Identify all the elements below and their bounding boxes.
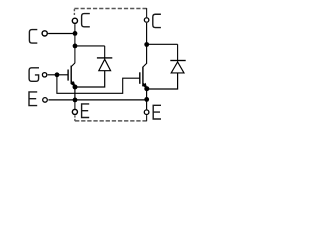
IGBT Q2 collector lead	[143, 63, 147, 67]
wire collector rail to D1	[75, 45, 105, 47]
label C (top right terminal)	[153, 14, 161, 27]
node dot collector aux junction	[73, 31, 78, 36]
IGBT Q1 main bar	[70, 66, 72, 84]
wire E rail	[48, 99, 146, 101]
module outline top-left dashed stub	[73, 9, 75, 15]
node dot Q2 emitter	[144, 86, 149, 91]
wire C aux to node	[48, 33, 75, 35]
label C (left aux terminal)	[29, 30, 37, 43]
wire C1 circle down to Q1	[74, 24, 76, 63]
node dot E rail left junction	[73, 98, 78, 103]
node dot E rail right junction	[144, 97, 149, 102]
label C (top left terminal)	[82, 14, 90, 27]
IGBT Q2 gate bar	[139, 72, 141, 84]
wire collector rail 2 to D2	[147, 43, 178, 45]
diode D2 anode wire	[147, 73, 178, 89]
node dot Q2 collector junction	[144, 42, 149, 47]
wire G aux to gate node	[48, 74, 57, 76]
diode D1 cathode wire	[104, 46, 106, 59]
terminal C1 top circle	[72, 18, 77, 23]
label E (bottom left terminal)	[82, 104, 90, 118]
IGBT Q1 emitter lead with arrow	[71, 81, 75, 87]
module outline top-right stub (C2 terminal)	[146, 8, 148, 17]
node dot Q1 emitter	[73, 85, 78, 90]
wire gate to Q1 gate bar	[57, 74, 68, 76]
module outline top dashed border	[74, 8, 146, 10]
wire C2 circle down to IGBT2	[146, 23, 148, 64]
terminal E aux circle	[43, 98, 48, 103]
terminal G aux circle	[42, 73, 46, 77]
diode D1 anode wire	[75, 71, 105, 87]
label E (left aux terminal)	[29, 92, 37, 106]
IGBT Q2 emitter lead with arrow	[143, 83, 147, 88]
module outline bottom-right stub (E2 terminal)	[146, 115, 148, 121]
terminal C aux (left) circle	[42, 31, 47, 36]
terminal C2 top circle	[144, 18, 149, 23]
IGBT Q2 main bar	[142, 67, 144, 87]
diode D2 triangle	[171, 62, 184, 73]
wire Q2 emitter down to E2 terminal	[146, 89, 148, 110]
IGBT Q1 gate bar	[67, 70, 69, 81]
diode D1 triangle	[99, 59, 111, 70]
module outline bottom dashed border	[75, 120, 147, 122]
diode D2 cathode bar	[170, 60, 185, 62]
diode D1 cathode bar	[97, 57, 112, 59]
diode D2 cathode wire	[177, 44, 179, 61]
node dot collector rail junction	[73, 44, 78, 49]
terminal E2 bottom circle	[144, 110, 149, 115]
module outline bottom-left dashed stub (E1 terminal)	[74, 115, 76, 121]
wire gate bus down-across-up to Q2 gate	[57, 75, 139, 94]
label G (left aux terminal)	[29, 68, 39, 82]
IGBT Q1 collector lead	[71, 63, 75, 67]
label E (bottom right terminal)	[153, 105, 161, 119]
terminal E1 bottom circle	[72, 109, 77, 114]
wire Q1 emitter down to E rail and E1 terminal	[74, 87, 76, 100]
node dot gate junction	[55, 72, 60, 77]
